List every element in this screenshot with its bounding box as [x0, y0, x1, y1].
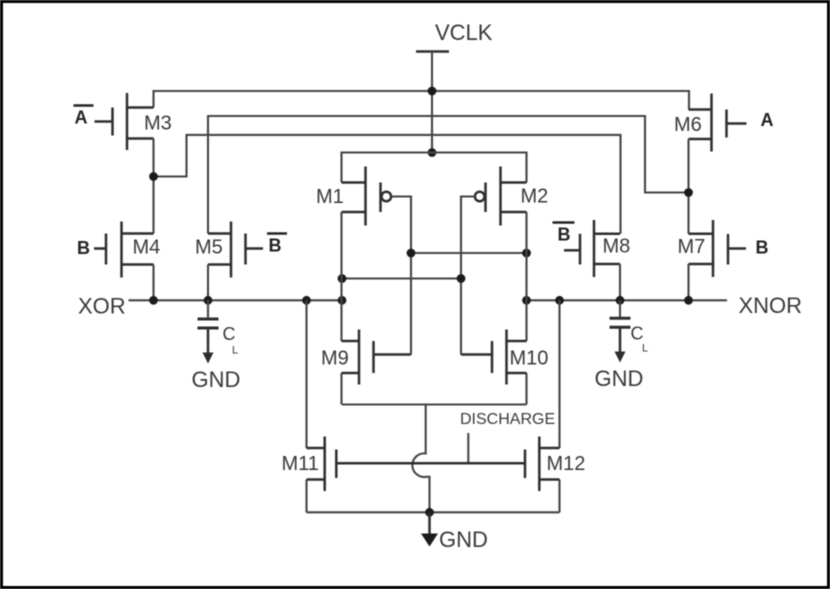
svg-text:DISCHARGE: DISCHARGE [460, 411, 555, 428]
wire XOR to M11 drain [305, 300, 307, 448]
wire M8 source to XNOR rail [619, 264, 621, 300]
net XOR rail [129, 299, 343, 301]
transistor M4 [94, 222, 154, 278]
wire ground rail [307, 511, 560, 513]
transistor M11 [307, 437, 337, 492]
svg-text:M10: M10 [510, 348, 549, 370]
junction VCLK x top rail [428, 87, 437, 96]
svg-text:A: A [761, 110, 774, 130]
junction XOR-M5/CL [204, 296, 213, 305]
svg-text:M3: M3 [144, 113, 172, 135]
wire cross link M2gate-XOR node [342, 277, 461, 279]
VCLK terminal bar [416, 50, 449, 53]
wire M2 drain to M10 drain [525, 212, 527, 341]
svg-text:XOR: XOR [78, 294, 126, 319]
junction ground rail [425, 508, 434, 517]
wire inner VCLK rail [342, 153, 527, 183]
junction XNOR-M12 branch [555, 296, 564, 305]
transistor M9 [342, 330, 412, 385]
junction cross link2 right [457, 274, 466, 283]
svg-text:L: L [642, 343, 648, 355]
transistor M2 (PMOS) [475, 167, 527, 226]
svg-text:B: B [756, 238, 769, 258]
input label B-bar (M8 gate) [553, 223, 575, 245]
ground arrow right [615, 328, 626, 363]
svg-text:GND: GND [439, 527, 488, 552]
svg-text:M8: M8 [603, 236, 631, 258]
transistor M1 (PMOS) [342, 167, 392, 226]
svg-text:M2: M2 [521, 186, 549, 208]
wire latch bottom rail [342, 403, 527, 405]
junction M6 source node [684, 188, 693, 197]
ground arrow left [203, 329, 214, 364]
transistor M7 [689, 220, 747, 277]
svg-text:M6: M6 [674, 114, 702, 136]
wire M2 gate to M10 gate [461, 197, 475, 355]
transistor M5 [208, 222, 263, 278]
label CL right [631, 324, 649, 355]
wire M11-M12 gate line [336, 462, 525, 465]
wire VCLK stem [431, 52, 433, 153]
svg-text:M5: M5 [195, 237, 223, 259]
svg-text:A: A [75, 108, 88, 128]
svg-text:C: C [631, 324, 644, 344]
svg-text:GND: GND [595, 366, 644, 391]
input label A-bar (M3 gate) [74, 106, 94, 128]
wire M3 source to M4 drain [152, 139, 154, 234]
wire M7 source to XNOR rail [687, 264, 689, 300]
ground arrow bottom [421, 512, 438, 546]
junction XNOR left end [522, 296, 531, 305]
svg-text:XNOR: XNOR [739, 293, 803, 318]
svg-text:GND: GND [192, 367, 241, 392]
capacitor CL left [198, 319, 219, 328]
wire M10 source to latch rail [525, 373, 527, 405]
junction M3 source node [149, 172, 158, 181]
svg-text:B: B [269, 236, 282, 256]
wire M5 source to XOR rail [207, 265, 209, 301]
svg-text:M12: M12 [547, 453, 586, 475]
wire M3-source to M8-drain cross wire [154, 135, 621, 234]
junction XOR-M11 branch [302, 296, 311, 305]
wire latch rail to hop [412, 405, 429, 513]
wire M4 source to XOR rail [152, 265, 154, 301]
capacitor CL right [610, 318, 631, 327]
wire M1 drain to M9 drain [340, 212, 342, 341]
transistor M3 [95, 93, 154, 150]
transistor M10 [461, 330, 527, 385]
junction XOR right end [338, 296, 347, 305]
junction cross link right [522, 249, 531, 258]
capacitor CL right lead [619, 300, 621, 317]
svg-text:B: B [77, 238, 90, 258]
svg-text:C: C [223, 324, 236, 344]
wire XNOR to M12 drain [558, 300, 560, 448]
junction cross link left [407, 249, 416, 258]
junction XNOR-M8/CL [616, 296, 625, 305]
input label B-bar (M5 gate) [267, 234, 287, 256]
wire M5-drain to M6-source cross wire [208, 116, 689, 234]
svg-text:M1: M1 [316, 186, 344, 208]
transistor M8 [564, 220, 620, 277]
wire DISCHARGE stub [467, 433, 469, 463]
label CL left [223, 324, 239, 357]
svg-text:M4: M4 [133, 237, 161, 259]
junction VCLK x inner rail [428, 148, 437, 157]
transistor M6 [689, 94, 747, 152]
svg-text:M11: M11 [282, 453, 319, 475]
wire M11 source to ground rail [305, 480, 307, 513]
wire top rail [154, 91, 690, 110]
svg-text:B: B [558, 225, 571, 245]
junction XNOR-M7 [684, 296, 693, 305]
junction XOR-M4 [149, 296, 158, 305]
wire cross link M1gate-XNOR node [411, 252, 527, 254]
svg-text:M9: M9 [321, 348, 349, 370]
junction cross link2 left [338, 274, 347, 283]
svg-text:M7: M7 [678, 236, 706, 258]
wire M6 source to M7 drain [687, 139, 689, 234]
svg-text:L: L [232, 345, 238, 357]
wire M9 source to latch rail [340, 373, 342, 405]
net XNOR rail [527, 299, 728, 301]
wire M1 gate to M9 gate [391, 197, 411, 355]
svg-text:VCLK: VCLK [435, 20, 493, 45]
transistor M12 [525, 437, 560, 492]
wire M12 source to ground rail [558, 480, 560, 513]
capacitor CL left lead [207, 300, 209, 318]
